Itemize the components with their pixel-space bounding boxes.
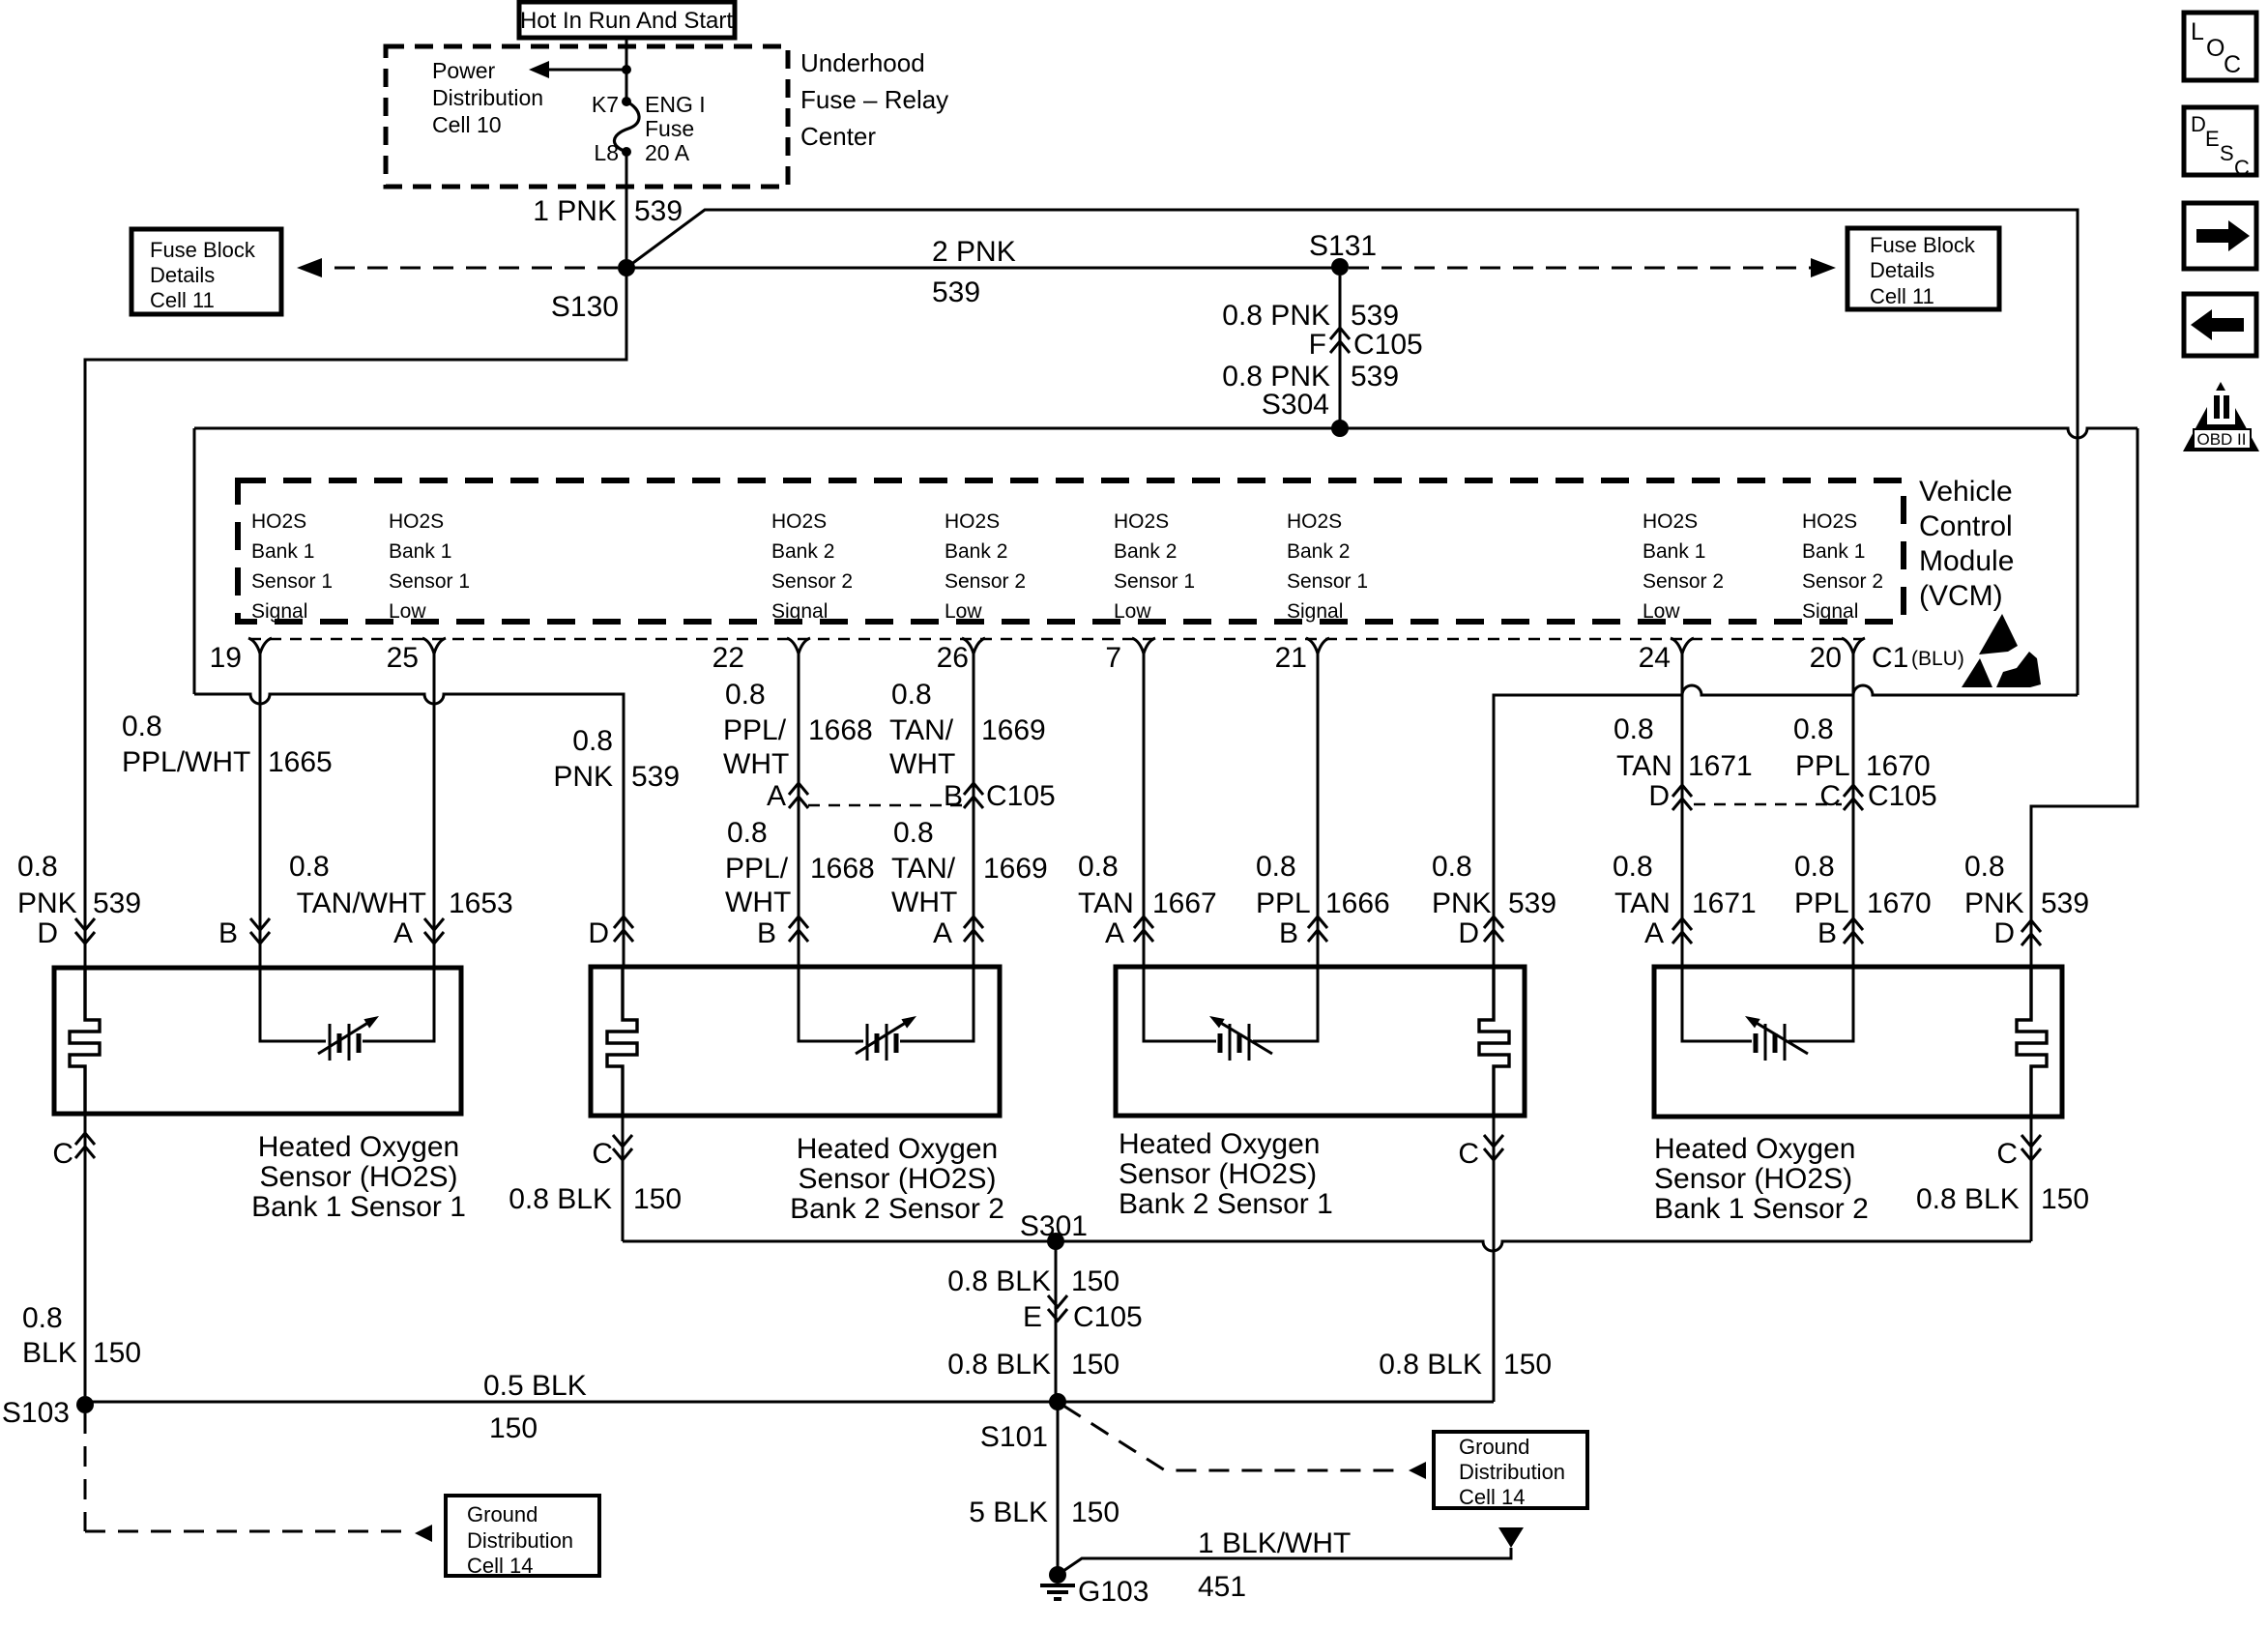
ESD sensitive device symbol (1962, 614, 2041, 687)
svg-text:Sensor 1: Sensor 1 (1114, 570, 1195, 593)
OBD II triangle icon (2183, 382, 2259, 451)
svg-text:0.8: 0.8 (725, 679, 766, 711)
svg-text:1670: 1670 (1866, 750, 1931, 782)
pin letter A sensor4 (1644, 917, 1664, 949)
svg-text:S: S (2220, 141, 2234, 165)
LOC icon box (2184, 13, 2256, 80)
heated oxygen sensor bank2 sensor1 box (1116, 967, 1525, 1116)
svg-text:Bank 2: Bank 2 (1287, 540, 1350, 563)
label 0.8 PPL/WHT 1668 upper (723, 679, 873, 780)
svg-text:0.8: 0.8 (572, 725, 613, 757)
svg-text:1 PNK: 1 PNK (533, 195, 617, 227)
svg-text:C: C (2234, 156, 2250, 180)
pin letter C sensor2 (592, 1135, 632, 1170)
VCM pin function label Bank 1 Sensor 2 Signal at x=1864 (1802, 510, 1883, 623)
wire 0.8 BLK 150 S301 to S101 (1055, 1241, 1058, 1402)
svg-text:0.8: 0.8 (289, 851, 330, 883)
svg-text:Low: Low (1114, 600, 1151, 623)
svg-text:Sensor (HO2S): Sensor (HO2S) (798, 1163, 996, 1195)
svg-text:150: 150 (1071, 1497, 1119, 1528)
pin letter B sensor3 (1279, 917, 1298, 949)
svg-text:A: A (767, 780, 786, 812)
svg-text:0.8: 0.8 (17, 851, 58, 883)
svg-text:26: 26 (937, 642, 969, 674)
svg-text:0.5 BLK: 0.5 BLK (483, 1370, 587, 1402)
label 0.8 PNK 539 upper (1222, 300, 1399, 332)
svg-text:O: O (2206, 35, 2224, 62)
label Power Distribution Cell 10 (432, 58, 543, 137)
svg-text:(VCM): (VCM) (1919, 580, 2003, 612)
svg-text:F: F (1309, 329, 1326, 361)
svg-text:Sensor 1: Sensor 1 (1287, 570, 1368, 593)
svg-text:Power: Power (432, 58, 496, 83)
splice S301 (1020, 1210, 1088, 1250)
sensor4 heater element (2017, 967, 2047, 1116)
svg-text:PPL/: PPL/ (723, 714, 787, 746)
svg-text:B: B (757, 917, 776, 949)
sensor1 sensing element (260, 968, 434, 1061)
svg-text:Heated Oxygen: Heated Oxygen (797, 1133, 998, 1165)
wire 0.8 PPL 1670 pin20 to sensor4 B (1844, 653, 1863, 967)
svg-text:539: 539 (2041, 887, 2089, 919)
splice S304 (1262, 389, 1349, 437)
svg-text:Bank 1 Sensor 1: Bank 1 Sensor 1 (251, 1191, 466, 1223)
ground G103 (1040, 1566, 1149, 1608)
svg-text:Sensor (HO2S): Sensor (HO2S) (1119, 1158, 1317, 1190)
svg-text:Distribution: Distribution (432, 85, 543, 110)
svg-text:Sensor 2: Sensor 2 (771, 570, 853, 593)
svg-text:HO2S: HO2S (389, 510, 444, 533)
svg-text:0.8: 0.8 (22, 1302, 63, 1334)
svg-text:PPL/: PPL/ (725, 853, 789, 885)
VCM pin function label Bank 1 Sensor 1 Signal at x=260 (251, 510, 333, 623)
svg-text:S304: S304 (1262, 389, 1329, 421)
label 0.8 PPL/WHT 1665 (122, 711, 333, 778)
svg-text:Low: Low (1643, 600, 1680, 623)
wire 0.8 BLK 150 sensor3 C to S101 line (1493, 1116, 1496, 1402)
pin letter B sensor2 (757, 917, 776, 949)
svg-text:150: 150 (1071, 1349, 1119, 1381)
svg-text:Bank 1: Bank 1 (389, 540, 451, 563)
svg-text:B: B (218, 917, 238, 949)
svg-text:150: 150 (633, 1183, 682, 1215)
pin letter A sensor2 (933, 917, 952, 949)
svg-text:150: 150 (2041, 1183, 2089, 1215)
label 0.8 PPL/WHT 1668 lower (725, 817, 875, 918)
svg-text:TAN: TAN (1614, 887, 1671, 919)
label C1 (BLU) (1872, 642, 1964, 674)
svg-text:HO2S: HO2S (1643, 510, 1698, 533)
svg-text:PPL: PPL (1795, 750, 1850, 782)
svg-text:Bank 1: Bank 1 (1643, 540, 1705, 563)
svg-text:Bank 2 Sensor 2: Bank 2 Sensor 2 (790, 1193, 1004, 1225)
power feed arrow to Power Distribution (529, 61, 626, 78)
label 0.8 PNK 539 sensor2 D (553, 725, 680, 793)
svg-text:2 PNK: 2 PNK (932, 236, 1016, 268)
splice S101 (980, 1393, 1066, 1453)
label 0.8 BLK 150 sensor1 (22, 1302, 141, 1369)
label 0.8 TAN 1667 (1078, 851, 1217, 919)
svg-text:D: D (37, 917, 58, 949)
svg-text:0.8: 0.8 (1614, 713, 1654, 745)
label 0.8 PNK 539 lower (1222, 361, 1399, 392)
svg-text:150: 150 (1503, 1349, 1552, 1381)
VCM pin function label Bank 2 Sensor 2 Signal at x=798 (771, 510, 853, 623)
svg-text:B: B (944, 780, 963, 812)
wire 0.5 BLK 150 S103 to S101 (85, 1401, 1494, 1404)
svg-text:K7: K7 (592, 92, 619, 117)
svg-text:D: D (588, 917, 609, 949)
svg-text:Bank 1: Bank 1 (1802, 540, 1865, 563)
wire 0.8 BLK 150 sensor1 C to S103 (84, 1114, 87, 1396)
svg-text:Cell 14: Cell 14 (1459, 1485, 1525, 1509)
heated oxygen sensor bank1 sensor2 box (1654, 967, 2062, 1117)
label 1 PNK 539 (533, 195, 683, 227)
wire 1 PNK 539 fuse to S130 (625, 152, 628, 259)
DESC icon box (2184, 107, 2256, 180)
svg-text:Low: Low (945, 600, 982, 623)
svg-text:PNK: PNK (1964, 887, 2024, 919)
label Heated Oxygen Sensor (HO2S) Bank 1 Sensor 1 (251, 1131, 466, 1223)
svg-text:C: C (1996, 1138, 2018, 1170)
wire 0.8 TAN 1667 pin7 to sensor3 A (1134, 653, 1153, 967)
svg-text:0.8: 0.8 (1256, 851, 1296, 883)
svg-text:Sensor 2: Sensor 2 (945, 570, 1026, 593)
svg-text:150: 150 (1071, 1265, 1119, 1297)
svg-text:L8: L8 (594, 140, 619, 165)
VCM pin 7 (1105, 638, 1155, 674)
svg-text:539: 539 (1508, 887, 1556, 919)
svg-text:Bank 1 Sensor 2: Bank 1 Sensor 2 (1654, 1193, 1869, 1225)
svg-text:0.8: 0.8 (1432, 851, 1472, 883)
svg-text:WHT: WHT (891, 887, 957, 918)
svg-text:TAN/: TAN/ (889, 714, 954, 746)
label 0.8 TAN/WHT 1669 upper (889, 679, 1046, 780)
svg-text:WHT: WHT (725, 887, 791, 918)
svg-text:0.8: 0.8 (1964, 851, 2005, 883)
Underhood Fuse-Relay Center dashed box (386, 46, 788, 187)
svg-text:0.8: 0.8 (893, 817, 934, 849)
svg-text:0.8: 0.8 (891, 679, 932, 711)
svg-text:1668: 1668 (808, 714, 873, 746)
label Heated Oxygen Sensor (HO2S) Bank 2 Sensor 1 (1119, 1128, 1333, 1220)
svg-text:WHT: WHT (723, 748, 789, 780)
svg-text:0.8: 0.8 (727, 817, 768, 849)
svg-text:Fuse Block: Fuse Block (150, 238, 256, 262)
svg-text:Fuse Block: Fuse Block (1870, 233, 1976, 257)
wire 0.8 TAN 1671 pin24 to sensor4 A (1672, 653, 1692, 967)
svg-text:C105: C105 (1073, 1301, 1143, 1333)
Vehicle Control Module dashed box (238, 480, 1904, 622)
connector C105 pin D (1648, 780, 1670, 812)
label 5 BLK 150 (969, 1497, 1119, 1528)
svg-text:Signal: Signal (1287, 600, 1343, 623)
pin letter A sensor1 (393, 917, 413, 949)
label Heated Oxygen Sensor (HO2S) Bank 2 Sensor 2 (790, 1133, 1004, 1225)
svg-text:D: D (1458, 917, 1479, 949)
svg-text:Module: Module (1919, 545, 2014, 577)
label Heated Oxygen Sensor (HO2S) Bank 1 Sensor 2 (1654, 1133, 1869, 1225)
svg-text:Distribution: Distribution (467, 1528, 573, 1553)
label 0.8 TAN/WHT 1669 lower (891, 817, 1048, 918)
connector C1 line (249, 638, 1864, 641)
heated oxygen sensor bank2 sensor2 box (591, 967, 1000, 1116)
svg-text:Sensor 1: Sensor 1 (251, 570, 333, 593)
svg-text:1667: 1667 (1152, 887, 1217, 919)
svg-text:S301: S301 (1020, 1210, 1088, 1242)
svg-text:20 A: 20 A (645, 140, 690, 165)
svg-text:539: 539 (634, 195, 683, 227)
label 0.8 BLK 150 sensor4 (1916, 1183, 2089, 1215)
dashed reference arrow S130 to left Fuse Block Details (297, 258, 618, 277)
svg-text:0.8 BLK: 0.8 BLK (1916, 1183, 2020, 1215)
svg-text:TAN/: TAN/ (891, 853, 956, 885)
svg-text:PNK: PNK (553, 761, 613, 793)
svg-text:Bank 1: Bank 1 (251, 540, 314, 563)
svg-text:HO2S: HO2S (1114, 510, 1169, 533)
label 0.8 PPL 1670 upper (1793, 713, 1931, 782)
splice S131 (1309, 230, 1377, 276)
wire 0.8 PNK 539 S131 to S304 (1339, 276, 1342, 428)
svg-text:HO2S: HO2S (945, 510, 1000, 533)
svg-text:C1: C1 (1872, 642, 1908, 674)
svg-text:1671: 1671 (1692, 887, 1757, 919)
label 0.8 TAN 1671 upper (1614, 713, 1753, 782)
svg-text:PPL: PPL (1256, 887, 1311, 919)
svg-text:Bank 2: Bank 2 (771, 540, 834, 563)
svg-text:Sensor 1: Sensor 1 (389, 570, 470, 593)
svg-text:0.8 BLK: 0.8 BLK (947, 1349, 1051, 1381)
wire 5 BLK 150 S101 to G103 (1057, 1402, 1060, 1575)
svg-text:Distribution: Distribution (1459, 1460, 1565, 1484)
dashed reference arrow S131 to right Fuse Block Details (1349, 258, 1836, 277)
VCM pin function label Bank 1 Sensor 2 Low at x=1699 (1643, 510, 1724, 623)
svg-text:Signal: Signal (1802, 600, 1858, 623)
label Vehicle Control Module (VCM) (1919, 476, 2014, 612)
svg-text:S103: S103 (2, 1397, 70, 1429)
svg-text:Ground: Ground (1459, 1435, 1529, 1459)
pin letter D sensor3 (1458, 916, 1503, 949)
svg-text:0.8: 0.8 (1793, 713, 1834, 745)
svg-text:539: 539 (1351, 361, 1399, 392)
svg-text:539: 539 (932, 276, 980, 308)
svg-text:1671: 1671 (1688, 750, 1753, 782)
svg-text:0.8 BLK: 0.8 BLK (509, 1183, 612, 1215)
svg-text:21: 21 (1275, 642, 1307, 674)
svg-text:L: L (2191, 18, 2204, 45)
heated oxygen sensor bank1 sensor1 box (54, 968, 461, 1114)
VCM pin function label Bank 2 Sensor 1 Low at x=1152 (1114, 510, 1195, 623)
wire 0.8 BLK 150 sensor2 C to S301 (622, 1116, 625, 1241)
label 0.8 BLK 150 below E (947, 1349, 1119, 1381)
svg-text:Signal: Signal (251, 600, 307, 623)
svg-text:B: B (1279, 917, 1298, 949)
pin letter B sensor4 (1817, 917, 1837, 949)
label 2 PNK 539 (932, 236, 1016, 308)
svg-text:ENG I: ENG I (645, 92, 706, 117)
svg-text:D: D (2191, 112, 2206, 136)
svg-text:Bank 2: Bank 2 (1114, 540, 1177, 563)
connector C105 pin A (767, 780, 786, 812)
svg-text:Low: Low (389, 600, 426, 623)
wire 0.8 TAN/WHT 1669 pin26 to sensor2 A (964, 653, 983, 967)
VCM pin 24 (1639, 638, 1694, 674)
svg-text:Underhood: Underhood (800, 48, 925, 77)
label 0.8 PNK 539 sensor1 D (17, 851, 141, 919)
svg-text:A: A (1644, 917, 1664, 949)
VCM pin function label Bank 1 Sensor 1 Low at x=402 (389, 510, 470, 623)
sensor3 heater element (1479, 967, 1509, 1116)
svg-text:150: 150 (489, 1412, 538, 1444)
wire 0.8 PPL/WHT 1668 pin22 to sensor2 B (789, 653, 808, 967)
VCM pin 21 (1275, 638, 1329, 674)
label 0.8 PNK 539 sensor4 D (1964, 851, 2089, 919)
svg-text:Vehicle: Vehicle (1919, 476, 2013, 508)
svg-text:Ground: Ground (467, 1502, 538, 1526)
svg-text:0.8: 0.8 (1613, 851, 1653, 883)
svg-text:C105: C105 (1868, 780, 1937, 812)
splice S130 (551, 259, 635, 323)
svg-text:C105: C105 (986, 780, 1056, 812)
svg-text:C: C (592, 1138, 613, 1170)
svg-text:C105: C105 (1353, 329, 1423, 361)
svg-text:Details: Details (150, 263, 215, 287)
wire 0.8 TAN/WHT 1653 pin25 to sensor1 A (424, 653, 444, 968)
svg-text:7: 7 (1105, 642, 1121, 674)
left arrow icon box (2184, 294, 2256, 356)
svg-text:Bank 2: Bank 2 (945, 540, 1007, 563)
svg-text:S101: S101 (980, 1421, 1048, 1453)
fuse ENG I 20A K7/L8 (592, 92, 706, 165)
sensor2 heater element (607, 967, 637, 1116)
sensor2 sensing element (799, 967, 974, 1061)
svg-text:A: A (1105, 917, 1124, 949)
wire PNK 539 left branch to sensor2 D (194, 428, 624, 967)
wire 2 PNK S130 diagonal to top right corner (626, 210, 2078, 695)
svg-text:E: E (2205, 127, 2220, 151)
pin letter A sensor3 (1105, 917, 1124, 949)
connector C105 dashed line A-B (808, 804, 964, 807)
label 0.8 PNK 539 sensor3 D (1432, 851, 1556, 919)
splice S103 (2, 1396, 94, 1429)
label 0.8 BLK 150 sensor3 (1379, 1349, 1552, 1381)
sensor4 sensing element (1682, 967, 1853, 1061)
svg-text:1666: 1666 (1325, 887, 1390, 919)
Ground Distribution Cell 14 box left (446, 1496, 599, 1578)
svg-text:B: B (1817, 917, 1837, 949)
svg-text:Sensor (HO2S): Sensor (HO2S) (1654, 1163, 1852, 1195)
label 0.8 PPL 1666 (1256, 851, 1390, 919)
svg-text:TAN: TAN (1616, 750, 1672, 782)
svg-text:BLK: BLK (22, 1337, 77, 1369)
VCM pin 26 (937, 638, 985, 674)
svg-text:D: D (1993, 917, 2015, 949)
svg-text:HO2S: HO2S (1802, 510, 1857, 533)
svg-text:539: 539 (1351, 300, 1399, 332)
svg-text:Heated Oxygen: Heated Oxygen (258, 1131, 459, 1163)
svg-text:539: 539 (93, 887, 141, 919)
svg-text:0.8 BLK: 0.8 BLK (1379, 1349, 1482, 1381)
dashed reference arrow S101 to Ground Distribution right (1063, 1406, 1426, 1479)
wire 1 BLK/WHT 451 to ground distribution (1058, 1527, 1524, 1575)
svg-text:1668: 1668 (810, 853, 875, 885)
svg-text:Heated Oxygen: Heated Oxygen (1654, 1133, 1855, 1165)
pin letter C sensor3 (1458, 1135, 1503, 1170)
svg-text:0.8 PNK: 0.8 PNK (1222, 300, 1330, 332)
label Underhood Fuse - Relay Center (800, 48, 948, 151)
svg-text:HO2S: HO2S (1287, 510, 1342, 533)
svg-text:A: A (393, 917, 413, 949)
svg-text:C: C (2224, 51, 2241, 78)
svg-text:150: 150 (93, 1337, 141, 1369)
junction dot above fuse (622, 38, 631, 102)
VCM pin 25 (387, 638, 446, 674)
pin letter D sensor4 (1993, 917, 2041, 949)
svg-text:1670: 1670 (1867, 887, 1932, 919)
svg-text:1669: 1669 (983, 853, 1048, 885)
wire 0.8 PPL 1666 pin21 to sensor3 B (1308, 653, 1327, 967)
svg-text:PPL: PPL (1794, 887, 1849, 919)
VCM pin function label Bank 2 Sensor 1 Signal at x=1331 (1287, 510, 1368, 623)
pin letter C sensor4 (1996, 1135, 2041, 1170)
svg-text:5 BLK: 5 BLK (969, 1497, 1048, 1528)
svg-text:Signal: Signal (771, 600, 828, 623)
svg-text:C: C (1819, 780, 1841, 812)
Fuse Block Details Cell 11 box right (1847, 228, 1999, 309)
svg-text:PNK: PNK (1432, 887, 1492, 919)
svg-text:Hot In Run And Start: Hot In Run And Start (520, 8, 733, 34)
svg-text:Sensor 2: Sensor 2 (1643, 570, 1724, 593)
right arrow icon box (2184, 203, 2256, 269)
svg-text:D: D (1648, 780, 1670, 812)
svg-text:TAN: TAN (1078, 887, 1134, 919)
wire PNK 539 S304 horizontal run (194, 428, 2137, 438)
sensor1 heater element (70, 967, 100, 1116)
svg-text:Cell 11: Cell 11 (1870, 284, 1934, 308)
pin letter C sensor1 (52, 1133, 95, 1170)
connector C105 pin F (1309, 328, 1423, 361)
svg-text:WHT: WHT (889, 748, 955, 780)
svg-text:Control: Control (1919, 510, 2013, 542)
label 0.8 PPL 1670 lower (1794, 851, 1932, 919)
wire BLK 150 S301 run (623, 1241, 2031, 1251)
svg-text:Cell 10: Cell 10 (432, 112, 502, 137)
svg-text:S130: S130 (551, 291, 619, 323)
Hot In Run And Start box (519, 2, 735, 38)
label 0.8 TAN/WHT 1653 (289, 851, 513, 919)
svg-text:C: C (1458, 1138, 1479, 1170)
VCM pin 22 (712, 638, 810, 674)
VCM pin function label Bank 2 Sensor 2 Low at x=977 (945, 510, 1026, 623)
svg-text:20: 20 (1810, 642, 1842, 674)
svg-text:HO2S: HO2S (251, 510, 306, 533)
pin letter D sensor1 (37, 917, 95, 949)
svg-text:0.8: 0.8 (122, 711, 162, 742)
svg-text:1 BLK/WHT: 1 BLK/WHT (1198, 1527, 1351, 1559)
svg-text:G103: G103 (1078, 1576, 1149, 1608)
pin letter D sensor2 (588, 916, 633, 949)
connector C105 pin C (1819, 780, 1936, 812)
svg-text:Sensor 2: Sensor 2 (1802, 570, 1883, 593)
svg-text:Fuse: Fuse (645, 116, 694, 141)
Fuse Block Details Cell 11 box left (131, 229, 281, 314)
svg-text:HO2S: HO2S (771, 510, 827, 533)
label 0.5 BLK 150 (483, 1370, 587, 1444)
VCM pin 20 (1810, 638, 1865, 674)
svg-text:451: 451 (1198, 1571, 1246, 1603)
svg-text:Cell 11: Cell 11 (150, 288, 215, 312)
Ground Distribution Cell 14 box right (1434, 1432, 1587, 1509)
